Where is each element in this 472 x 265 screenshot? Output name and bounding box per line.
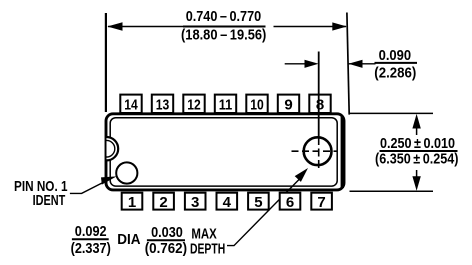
svg-text:11: 11 [219,96,233,113]
svg-text:0.090: 0.090 [379,47,412,64]
svg-text:8: 8 [316,96,324,113]
svg-text:DIA: DIA [117,231,140,248]
extension line left body edge [105,13,107,112]
leader line to pin 1 ident [70,183,103,194]
svg-text:0.740 – 0.770: 0.740 – 0.770 [186,8,262,25]
extension line body top right [350,112,434,114]
svg-text:(2.337): (2.337) [71,240,111,257]
dimension line body length left segment [108,26,184,28]
extension line right body edge [347,13,349,115]
dimple centerline horizontal dashed [292,150,338,152]
svg-text:(0.762): (0.762) [145,240,187,257]
leader arrowhead at pin 1 ident [101,176,117,184]
pin 1 ident circle [116,162,137,183]
pin 12 [183,95,204,114]
svg-text:0.030: 0.030 [151,224,183,241]
body width fraction bar [380,150,458,152]
0.090 fraction bar [375,62,418,64]
dimension line body length right segment [274,26,347,28]
pin 5 [248,193,269,211]
svg-text:5: 5 [254,194,262,211]
IC package body inner outline [110,118,337,186]
pin 8 [309,95,330,114]
svg-text:0.092: 0.092 [75,223,107,240]
pin 13 [152,95,173,114]
0.092 fraction bar [72,238,109,240]
svg-text:IDENT: IDENT [33,192,66,209]
svg-text:10: 10 [250,96,264,113]
arrowhead 0.090 pointing right [305,60,319,68]
arrowhead 0.090 pointing left [348,60,362,68]
pin 7 [311,193,332,211]
pin 1 [122,193,143,211]
pin 9 [278,95,299,114]
svg-text:3: 3 [191,194,199,211]
leader arrowhead at dimple [295,168,308,182]
index notch on left edge [107,137,119,160]
svg-text:0.250 ± 0.010: 0.250 ± 0.010 [380,135,455,152]
arrowhead body length left [107,22,122,30]
svg-text:6: 6 [286,194,294,211]
IC package body outer outline [106,114,344,190]
pin 11 [215,95,236,114]
svg-text:13: 13 [156,96,170,113]
dimension 0.090 left arrow segment [285,63,314,65]
extension line body bottom right [350,190,434,192]
svg-text:1: 1 [128,194,136,211]
svg-text:9: 9 [284,96,292,113]
body width dimension line upper [416,125,418,135]
right body edge thick line [341,117,344,189]
body width dimension line lower [416,170,418,180]
dimple circle [304,137,332,165]
arrowhead body width down [412,176,420,191]
extension line pin 8 centerline [318,52,320,138]
svg-text:12: 12 [187,96,201,113]
svg-text:(6.350 ± 0.254): (6.350 ± 0.254) [375,150,459,167]
pin 3 [185,193,206,211]
svg-text:14: 14 [124,96,138,113]
dimple centerline vertical dashed [318,137,320,170]
0.030 fraction bar [147,239,185,241]
arrowhead body width up [412,114,420,129]
pin 6 [280,193,301,211]
svg-text:(18.80 – 19.56): (18.80 – 19.56) [181,27,266,44]
arrowhead body length right [332,22,347,30]
pin 10 [246,95,267,114]
pin 2 [153,193,174,211]
svg-text:(2.286): (2.286) [374,65,416,82]
svg-text:7: 7 [317,194,325,211]
leader line to dimple [227,180,299,246]
svg-text:4: 4 [223,194,232,211]
dimension 0.090 right segment [348,63,375,65]
pin 14 [120,95,141,114]
pin 4 [217,193,238,211]
svg-text:2: 2 [159,194,167,211]
svg-text:DEPTH: DEPTH [190,241,225,258]
